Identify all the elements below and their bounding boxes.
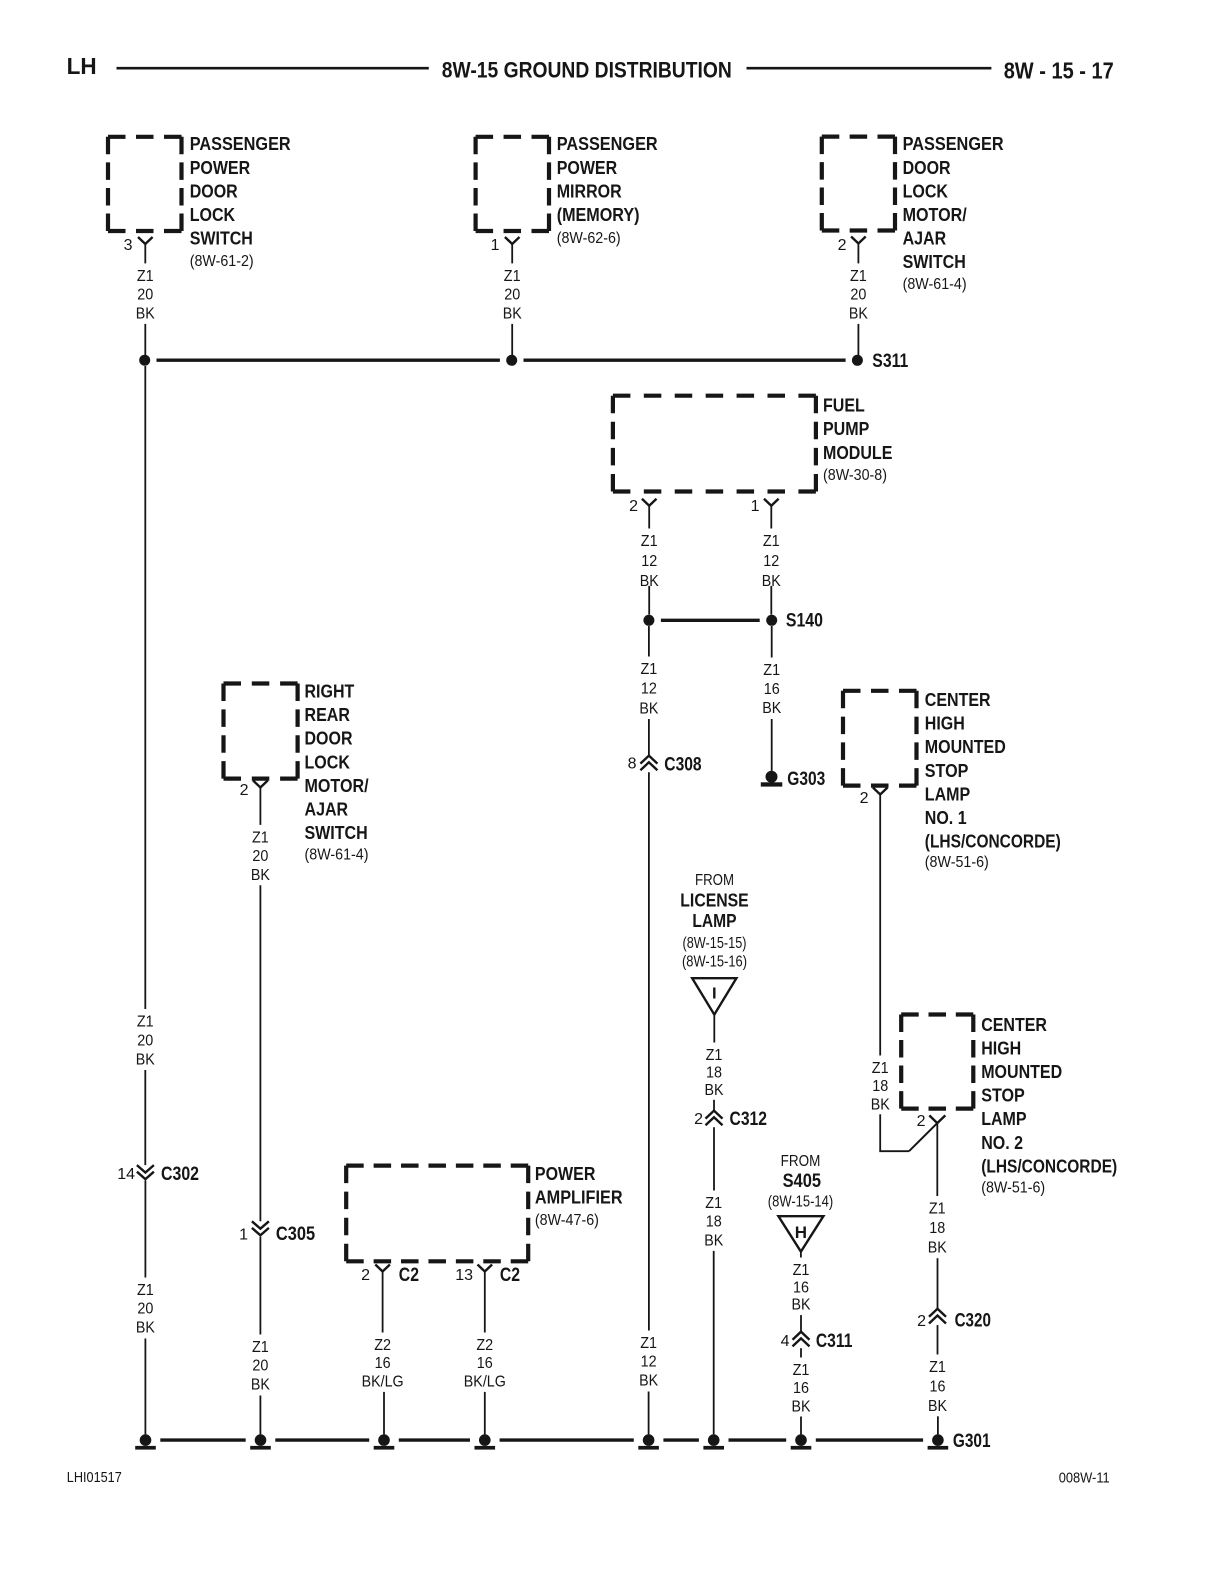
ground bus terminal dot, license lamp drop [703,1434,724,1449]
pin connector, right rear door lock motor pin 2 [253,781,268,788]
svg-text:1: 1 [751,498,760,515]
svg-text:REAR: REAR [305,705,350,725]
svg-text:C2: C2 [399,1265,419,1286]
svg-text:AJAR: AJAR [903,229,947,249]
svg-text:16: 16 [793,1279,809,1296]
svg-text:12: 12 [763,553,779,570]
svg-text:8W - 15 - 17: 8W - 15 - 17 [1004,57,1114,83]
junction dot S311 left [139,355,150,366]
svg-text:BK: BK [503,305,522,322]
svg-text:008W-11: 008W-11 [1059,1470,1110,1487]
wire Z1 12 BK from pump pin 2 (upper) [648,506,650,529]
component box: passenger door lock motor / ajar switch [822,137,895,231]
svg-text:2: 2 [240,782,249,799]
wire Z1 16 BK below C320 [937,1325,939,1354]
svg-text:MODULE: MODULE [823,443,892,463]
svg-text:MOTOR/: MOTOR/ [903,205,967,225]
svg-text:Z1: Z1 [872,1060,889,1077]
svg-text:BK: BK [251,867,270,884]
svg-text:1: 1 [239,1227,248,1244]
svg-text:20: 20 [252,1358,268,1375]
svg-text:BK/LG: BK/LG [464,1373,506,1390]
svg-text:4: 4 [781,1333,790,1350]
wire Z1 20 BK to ground bus (col 1) [144,1339,146,1435]
ground bus G301 segment 2 [275,1438,369,1441]
svg-text:2: 2 [838,237,847,254]
component box: fuel pump module [613,396,816,492]
svg-text:(8W-61-2): (8W-61-2) [190,253,254,270]
svg-text:20: 20 [137,1033,153,1050]
svg-text:Z1: Z1 [137,268,154,285]
wire Z1 16 BK to ground bus (S405) [800,1417,802,1435]
ground bus terminal dot, amplifier pin 2 drop [374,1434,395,1449]
junction dot S140 right [766,615,777,626]
wire Z1 12 BK to S140 (lower) [648,586,650,615]
svg-text:LAMP: LAMP [692,911,736,931]
wire label Z1 12 BK (above C308) [639,661,658,717]
svg-text:BK: BK [639,700,658,717]
svg-text:BK: BK [136,305,155,322]
ground bus G301 segment 3 [399,1438,470,1441]
svg-text:16: 16 [375,1355,391,1372]
wire label Z1 20 BK (above C302) [136,1014,155,1069]
svg-text:(8W-61-4): (8W-61-4) [903,276,967,293]
wire Z1 20 BK to ground bus (col 2) [259,1396,261,1435]
svg-text:CENTER: CENTER [981,1015,1047,1035]
ground bus G301 segment 1 [160,1438,245,1441]
wire Z1 20 BK to S311 (lower) [144,324,146,355]
svg-text:Z1: Z1 [640,1335,657,1352]
svg-text:Z1: Z1 [929,1359,946,1376]
wire Z2 16 BK/LG from amplifier pin 13 [484,1272,486,1333]
ground G303 [761,771,783,787]
pin connector, fuel pump module pin 1 [764,499,779,506]
wire label Z1 20 BK (mirror drop) [503,268,522,322]
ground bus G301 segment 4 [500,1438,634,1441]
wire Z1 12 BK below C308 (long) [648,772,650,1330]
svg-text:BK: BK [871,1096,890,1113]
svg-text:POWER: POWER [190,158,251,178]
svg-text:PUMP: PUMP [823,419,869,439]
splice bus S311 segment left [157,359,500,362]
wire horizontal jog to stop lamp no. 2 pin [879,1150,909,1152]
svg-text:BK: BK [928,1240,947,1257]
svg-text:DOOR: DOOR [305,729,353,749]
svg-text:16: 16 [793,1380,809,1397]
wire label Z1 18 BK (license lamp lower) [704,1195,723,1249]
pin connector, door lock motor pin 2 [851,237,866,244]
wire Z1 20 BK down to C305 [259,885,261,1221]
svg-text:Z1: Z1 [137,1282,154,1299]
header rule left [117,67,429,70]
svg-text:H: H [795,1223,807,1242]
wire Z1 12 BK into C308 [648,719,650,756]
svg-text:PASSENGER: PASSENGER [903,134,1004,154]
svg-text:(8W-15-16): (8W-15-16) [682,954,747,971]
svg-text:2: 2 [917,1313,926,1330]
svg-text:Z1: Z1 [793,1262,810,1279]
svg-text:(8W-47-6): (8W-47-6) [535,1212,599,1229]
svg-text:Z1: Z1 [763,662,780,679]
svg-text:BK: BK [792,1398,811,1415]
inline connector C305 [252,1221,269,1235]
svg-text:18: 18 [929,1220,945,1237]
splice bus S140 segment [661,619,760,622]
svg-text:(LHS/CONCORDE): (LHS/CONCORDE) [925,832,1061,852]
svg-text:POWER: POWER [557,158,618,178]
component box: center high mounted stop lamp no. 2 [901,1015,973,1109]
header rule right [747,67,992,70]
wire diagonal jog up to stop lamp no. 2 pin [909,1123,937,1151]
wire Z1 16 BK below S140 (upper) [771,626,773,658]
ground bus terminal dot, amplifier pin 13 drop [475,1434,496,1449]
junction dot S311 middle [506,355,517,366]
svg-text:NO. 2: NO. 2 [981,1133,1023,1153]
pin connector, fuel pump module pin 2 [642,499,657,506]
svg-text:12: 12 [641,553,657,570]
svg-text:BK: BK [849,305,868,322]
wire Z1 18 BK from license lamp triangle [713,1015,715,1043]
wire label Z1 16 BK (above ground bus, stop lamps) [928,1359,947,1415]
svg-text:2: 2 [629,498,638,515]
svg-text:14: 14 [117,1166,135,1183]
svg-text:18: 18 [706,1064,722,1081]
svg-text:BK: BK [136,1319,155,1336]
wire label Z1 12 BK (pump pin 2) [640,533,659,590]
ground bus terminal dot, right rear motor drop [250,1434,271,1449]
svg-text:1: 1 [491,237,500,254]
wire Z1 18 BK into C312 [713,1100,715,1111]
svg-text:Z1: Z1 [706,1047,723,1064]
svg-text:BK: BK [704,1232,723,1249]
svg-text:S405: S405 [783,1171,822,1192]
svg-text:8: 8 [628,756,637,773]
svg-text:2: 2 [917,1113,926,1130]
wire Z1 20 BK into C302 [144,1070,146,1165]
svg-text:LOCK: LOCK [305,752,350,772]
svg-text:MOUNTED: MOUNTED [925,737,1006,757]
ground bus terminal dot, left column (C302 drop) [135,1434,156,1449]
wire label Z1 20 BK (above ground bus, col 1) [136,1282,155,1336]
svg-text:C2: C2 [500,1265,520,1286]
wire Z1 20 BK from mirror pin 1 (upper) [511,244,513,263]
component box: passenger power mirror (memory) [476,137,549,231]
component box: passenger power door lock switch [108,137,182,231]
svg-text:POWER: POWER [535,1164,596,1184]
svg-text:2: 2 [694,1111,703,1128]
svg-text:20: 20 [850,287,866,304]
label: from license lamp [680,872,748,971]
svg-text:CENTER: CENTER [925,690,991,710]
label: fuel pump module [823,396,892,484]
wire Z1 16 BK to ground bus (stop lamps) [937,1416,939,1434]
label: passenger power mirror (memory) [557,134,658,247]
svg-text:20: 20 [137,1301,153,1318]
pin connector, stop lamp no. 1 pin 2 [873,788,888,795]
ground bus terminal dot, C308 drop [638,1434,659,1449]
label: center high mounted stop lamp no. 1 [925,690,1061,871]
svg-text:NO. 1: NO. 1 [925,808,967,828]
svg-text:AMPLIFIER: AMPLIFIER [535,1188,623,1208]
svg-text:(8W-51-6): (8W-51-6) [925,854,989,871]
wire label Z1 20 BK (motor drop) [849,268,868,322]
svg-text:(LHS/CONCORDE): (LHS/CONCORDE) [981,1156,1117,1176]
svg-text:2: 2 [361,1267,370,1284]
wire Z1 12 BK from pump pin 1 (upper) [770,506,772,529]
svg-text:(8W-61-4): (8W-61-4) [305,847,369,864]
wire Z1 12 BK to ground bus [648,1392,650,1435]
inline connector C308 [640,756,657,771]
wire Z1 20 BK to S311 (lower) [511,324,513,355]
svg-text:BK: BK [705,1082,724,1099]
off-page connector triangle I (from license lamp) [692,978,736,1014]
svg-text:Z2: Z2 [374,1337,391,1354]
svg-text:2: 2 [860,790,869,807]
svg-text:SWITCH: SWITCH [190,229,253,249]
wire Z2 16 BK/LG to ground bus (pin 13) [484,1392,486,1435]
svg-text:RIGHT: RIGHT [305,682,355,702]
svg-text:BK: BK [251,1376,270,1393]
inline connector C311 [793,1332,810,1347]
svg-text:Z1: Z1 [763,533,780,550]
svg-text:Z1: Z1 [929,1201,946,1218]
svg-text:BK: BK [762,700,781,717]
wire label Z1 18 BK (stop lamp no. 2 drop) [928,1201,947,1257]
svg-text:Z2: Z2 [476,1337,493,1354]
component box: center high mounted stop lamp no. 1 [843,691,917,786]
svg-text:MOTOR/: MOTOR/ [305,776,369,796]
svg-text:C302: C302 [161,1164,199,1185]
ground bus terminal dot, stop lamps drop [928,1434,949,1449]
svg-text:(8W-51-6): (8W-51-6) [981,1180,1045,1197]
wire label Z1 20 BK (switch drop) [136,268,155,322]
wire Z1 20 BK below C302 [144,1181,146,1278]
svg-text:S311: S311 [872,351,908,372]
pin connector, stop lamp no. 2 pin 2 [929,1115,945,1123]
wire Z1 12 BK to S140 (lower) [770,586,772,615]
svg-text:16: 16 [764,681,780,698]
inline connector C320 [929,1309,946,1324]
junction dot S311 right [852,355,863,366]
svg-text:HIGH: HIGH [981,1038,1021,1058]
wire Z1 20 BK from right rear motor (upper) [259,788,261,825]
wire Z2 16 BK/LG from amplifier pin 2 [382,1272,384,1333]
svg-text:(8W-15-14): (8W-15-14) [768,1193,833,1210]
wire Z1 16 BK to G303 [771,719,773,771]
svg-text:12: 12 [641,681,657,698]
ground bus terminal dot, S405 drop [791,1434,812,1449]
svg-text:C320: C320 [955,1310,991,1331]
wire label Z1 18 BK (stop lamp no. 1 drop) [871,1060,890,1113]
wire Z1 20 BK from S311 down (long) [144,366,146,1009]
label: right rear door lock motor / ajar switch [305,682,369,864]
wire label Z1 20 BK (right rear drop) [251,829,270,883]
pin connector, passenger power door lock switch pin 3 [138,237,153,244]
svg-text:LICENSE: LICENSE [680,890,748,910]
wire Z1 18 BK from stop lamp no. 1 (upper) [879,795,881,1056]
wire Z1 18 BK into C320 [937,1258,939,1309]
wire label Z1 16 BK (S405 drop) [792,1262,811,1314]
inline connector C302 [137,1165,154,1179]
svg-text:PASSENGER: PASSENGER [557,134,658,154]
label: power amplifier [535,1164,623,1229]
svg-text:13: 13 [455,1267,473,1284]
svg-text:8W-15 GROUND DISTRIBUTION: 8W-15 GROUND DISTRIBUTION [442,57,732,82]
svg-text:LHI01517: LHI01517 [67,1469,122,1486]
wire label Z1 12 BK (pump pin 1) [762,533,781,590]
svg-text:(8W-30-8): (8W-30-8) [823,467,887,484]
label: center high mounted stop lamp no. 2 [981,1015,1117,1197]
wire Z1 18 BK to ground bus (license lamp) [713,1251,715,1435]
svg-text:MIRROR: MIRROR [557,181,622,201]
svg-text:BK: BK [792,1297,811,1314]
ground bus G301 segment 7 [816,1438,923,1441]
svg-text:20: 20 [137,287,153,304]
junction dot S140 left [643,615,654,626]
svg-text:Z1: Z1 [641,661,658,678]
svg-text:Z1: Z1 [793,1362,810,1379]
svg-text:G303: G303 [787,769,825,790]
svg-text:C312: C312 [730,1109,768,1130]
svg-text:S140: S140 [786,610,823,631]
wire label Z1 12 BK (above ground bus) [639,1335,658,1389]
svg-text:Z1: Z1 [504,268,521,285]
svg-text:BK/LG: BK/LG [362,1373,404,1390]
svg-text:PASSENGER: PASSENGER [190,134,291,154]
svg-text:Z1: Z1 [850,268,867,285]
label: passenger door lock motor / ajar switch [903,134,1004,293]
svg-text:Z1: Z1 [705,1195,722,1212]
svg-text:BK: BK [639,1372,658,1389]
ground bus G301 segment 6 [729,1438,787,1441]
svg-text:Z1: Z1 [252,829,269,846]
svg-text:HIGH: HIGH [925,714,965,734]
svg-text:AJAR: AJAR [305,800,349,820]
wire Z1 20 BK to S311 (lower) [857,324,859,355]
svg-text:16: 16 [477,1355,493,1372]
wire Z1 12 BK below S140 (upper) [648,626,650,657]
svg-text:18: 18 [706,1214,722,1231]
inline connector C312 [706,1111,723,1126]
svg-text:Z1: Z1 [252,1339,269,1356]
wire Z1 20 BK from switch pin 3 (upper) [144,244,146,263]
wire label Z1 16 BK (S405 lower) [792,1362,811,1415]
svg-text:LOCK: LOCK [903,181,948,201]
component box: right rear door lock motor / ajar switch [224,684,298,779]
svg-text:LOCK: LOCK [190,205,235,225]
wire Z1 18 BK below label to corner [879,1114,881,1151]
pin connector, power amplifier pin 2 (C2) [375,1265,390,1272]
svg-text:G301: G301 [953,1431,991,1452]
svg-text:SWITCH: SWITCH [305,823,368,843]
wire Z1 16 BK into C311 [800,1315,802,1332]
splice bus S311 segment right [524,359,846,362]
wire Z1 18 BK from stop lamp no. 2 pin (upper) [936,1123,938,1196]
svg-text:BK: BK [136,1052,155,1069]
svg-text:Z1: Z1 [641,533,658,550]
wire label Z2 16 BK/LG (amplifier pin 2) [362,1337,404,1390]
svg-text:DOOR: DOOR [903,158,951,178]
svg-text:Z1: Z1 [137,1014,154,1031]
svg-text:SWITCH: SWITCH [903,252,966,272]
svg-text:BK: BK [928,1398,947,1415]
ground bus G301 segment 5 [663,1438,699,1441]
wire Z1 18 BK below C312 [713,1127,715,1190]
wire label Z1 20 BK (above ground bus, col 2) [251,1339,270,1393]
pin connector, passenger power mirror pin 1 [505,237,520,244]
svg-text:FROM: FROM [781,1153,821,1170]
svg-text:C311: C311 [816,1331,853,1352]
svg-text:FROM: FROM [695,872,734,889]
svg-text:3: 3 [124,237,133,254]
wire Z1 16 BK below C311 [800,1348,802,1357]
wire Z1 16 BK from S405 triangle [800,1252,802,1258]
svg-text:STOP: STOP [925,761,969,781]
svg-text:C308: C308 [664,754,701,775]
component box: power amplifier [346,1166,528,1262]
svg-text:LAMP: LAMP [925,784,970,804]
svg-text:STOP: STOP [981,1086,1025,1106]
svg-text:(8W-15-15): (8W-15-15) [683,935,747,952]
wire Z1 20 BK below C305 [259,1237,261,1335]
wire Z2 16 BK/LG to ground bus (pin 2) [383,1392,385,1435]
wire Z1 20 BK from motor pin 2 (upper) [857,244,859,264]
svg-text:MOUNTED: MOUNTED [981,1062,1062,1082]
wire label Z1 16 BK (above G303) [762,662,781,717]
svg-text:12: 12 [641,1354,657,1371]
pin connector, power amplifier pin 13 (C2) [478,1265,493,1272]
svg-text:16: 16 [930,1378,946,1395]
svg-text:FUEL: FUEL [823,396,865,416]
svg-text:DOOR: DOOR [190,181,238,201]
svg-text:LH: LH [67,53,97,79]
wire label Z1 18 BK (license lamp drop) [705,1047,724,1099]
svg-text:18: 18 [872,1078,888,1095]
svg-text:LAMP: LAMP [981,1109,1026,1129]
label: passenger power door lock switch [190,134,291,270]
off-page connector triangle H (from S405) [778,1216,823,1251]
svg-text:20: 20 [504,287,520,304]
label: from S405 [768,1153,833,1211]
svg-text:(8W-62-6): (8W-62-6) [557,230,621,247]
wire label Z2 16 BK/LG (amplifier pin 13) [464,1337,506,1390]
svg-text:(MEMORY): (MEMORY) [557,205,640,225]
svg-text:C305: C305 [276,1224,316,1245]
svg-text:20: 20 [252,848,268,865]
